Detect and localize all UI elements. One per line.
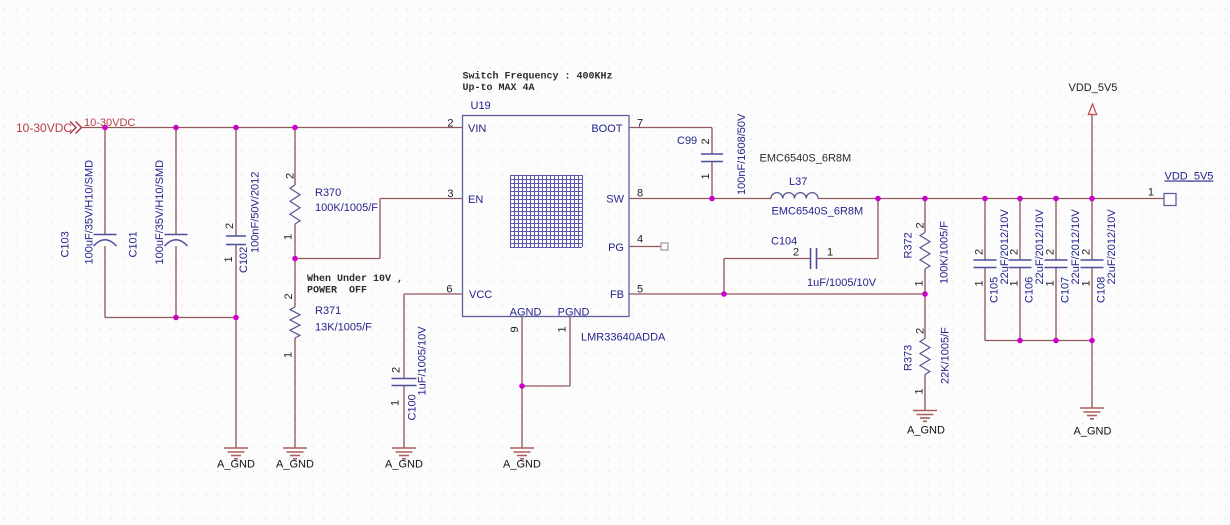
svg-text:8: 8 xyxy=(637,188,643,200)
svg-text:C99: C99 xyxy=(677,135,697,147)
svg-text:22uF/2012/10V: 22uF/2012/10V xyxy=(1070,209,1082,285)
svg-text:2: 2 xyxy=(224,223,236,229)
svg-text:POWER OFF: POWER OFF xyxy=(307,286,367,297)
svg-text:1: 1 xyxy=(914,280,926,286)
svg-text:1: 1 xyxy=(283,234,295,240)
svg-text:10-30VDC: 10-30VDC xyxy=(84,117,135,129)
svg-text:100uF/35V/H10/SMD: 100uF/35V/H10/SMD xyxy=(84,160,96,265)
svg-text:4: 4 xyxy=(637,234,643,246)
svg-text:C102: C102 xyxy=(238,247,250,273)
svg-text:2: 2 xyxy=(391,367,403,373)
svg-text:22uF/2012/10V: 22uF/2012/10V xyxy=(1106,209,1118,285)
svg-text:R372: R372 xyxy=(903,232,915,258)
svg-text:Switch Frequency : 400KHz: Switch Frequency : 400KHz xyxy=(463,71,613,83)
svg-text:3: 3 xyxy=(447,188,453,200)
svg-text:2: 2 xyxy=(285,173,297,179)
svg-text:U19: U19 xyxy=(471,100,491,112)
svg-text:2: 2 xyxy=(700,138,712,144)
svg-text:EN: EN xyxy=(468,194,483,206)
svg-text:1: 1 xyxy=(1081,280,1093,286)
svg-text:FB: FB xyxy=(610,289,624,301)
svg-text:1: 1 xyxy=(914,388,926,394)
svg-text:EMC6540S_6R8M: EMC6540S_6R8M xyxy=(760,153,852,165)
svg-text:2: 2 xyxy=(915,222,927,228)
svg-text:C101: C101 xyxy=(128,231,140,257)
svg-text:6: 6 xyxy=(446,284,452,296)
svg-text:LMR33640ADDA: LMR33640ADDA xyxy=(581,332,666,344)
svg-text:C100: C100 xyxy=(407,394,419,420)
svg-text:2: 2 xyxy=(447,118,453,130)
svg-text:2: 2 xyxy=(793,247,799,259)
svg-text:PG: PG xyxy=(608,242,624,254)
svg-text:R370: R370 xyxy=(315,187,341,199)
svg-text:1: 1 xyxy=(1045,280,1057,286)
svg-text:VDD_5V5: VDD_5V5 xyxy=(1165,171,1214,183)
svg-text:13K/1005/F: 13K/1005/F xyxy=(315,322,372,334)
svg-text:EMC6540S_6R8M: EMC6540S_6R8M xyxy=(772,206,864,218)
svg-text:C104: C104 xyxy=(771,236,797,248)
svg-text:SW: SW xyxy=(606,194,624,206)
svg-text:100K/1005/F: 100K/1005/F xyxy=(315,202,378,214)
svg-text:AGND: AGND xyxy=(510,307,542,319)
svg-text:A_GND: A_GND xyxy=(385,459,423,471)
svg-text:C103: C103 xyxy=(60,231,72,257)
svg-text:1uF/1005/10V: 1uF/1005/10V xyxy=(807,277,877,289)
svg-text:A_GND: A_GND xyxy=(276,459,314,471)
svg-text:BOOT: BOOT xyxy=(591,123,622,135)
svg-text:2: 2 xyxy=(1081,249,1093,255)
svg-text:1: 1 xyxy=(700,173,712,179)
svg-text:9: 9 xyxy=(509,326,521,332)
svg-text:10-30VDC: 10-30VDC xyxy=(16,121,72,135)
svg-text:2: 2 xyxy=(974,249,986,255)
svg-text:2: 2 xyxy=(1045,249,1057,255)
svg-text:1: 1 xyxy=(1148,187,1154,199)
svg-text:100nF/50V/2012: 100nF/50V/2012 xyxy=(250,172,262,253)
svg-text:100uF/35V/H10/SMD: 100uF/35V/H10/SMD xyxy=(154,160,166,265)
svg-text:PGND: PGND xyxy=(558,307,590,319)
svg-text:22K/1005/F: 22K/1005/F xyxy=(940,327,952,384)
svg-text:VCC: VCC xyxy=(469,289,492,301)
svg-text:VIN: VIN xyxy=(468,123,486,135)
svg-text:2: 2 xyxy=(283,293,295,299)
svg-text:L37: L37 xyxy=(789,176,807,188)
svg-text:1: 1 xyxy=(557,326,569,332)
svg-text:100K/1005/F: 100K/1005/F xyxy=(939,221,951,284)
svg-text:A_GND: A_GND xyxy=(1074,426,1112,438)
svg-text:VDD_5V5: VDD_5V5 xyxy=(1069,82,1118,94)
svg-text:2: 2 xyxy=(915,328,927,334)
svg-text:1: 1 xyxy=(827,247,833,259)
svg-text:Up-to MAX 4A: Up-to MAX 4A xyxy=(463,83,535,94)
svg-text:22uF/2012/10V: 22uF/2012/10V xyxy=(999,209,1011,285)
svg-text:100nF/1608/50V: 100nF/1608/50V xyxy=(736,113,748,195)
svg-text:R373: R373 xyxy=(903,345,915,371)
svg-text:When Under 10V ,: When Under 10V , xyxy=(307,273,403,285)
svg-text:1: 1 xyxy=(283,352,295,358)
svg-text:A_GND: A_GND xyxy=(503,459,541,471)
svg-text:1: 1 xyxy=(223,256,235,262)
svg-text:22uF/2012/10V: 22uF/2012/10V xyxy=(1034,209,1046,285)
svg-text:7: 7 xyxy=(637,118,643,130)
svg-text:1uF/1005/10V: 1uF/1005/10V xyxy=(417,326,429,396)
svg-text:R371: R371 xyxy=(315,305,341,317)
svg-text:1: 1 xyxy=(974,280,986,286)
svg-text:A_GND: A_GND xyxy=(907,425,945,437)
svg-text:1: 1 xyxy=(390,400,402,406)
svg-text:5: 5 xyxy=(637,284,643,296)
svg-text:A_GND: A_GND xyxy=(217,459,255,471)
